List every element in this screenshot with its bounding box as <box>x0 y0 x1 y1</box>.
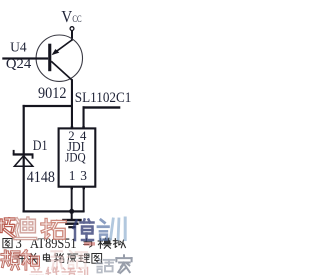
svg-text:4148: 4148 <box>27 169 55 186</box>
relay pin marks <box>71 126 85 128</box>
wire: Vcc terminal to Q24 emitter <box>71 30 73 40</box>
wire: relay pin 4 to SL1102C1 net <box>83 106 121 129</box>
watermark row 1 <box>0 218 125 240</box>
relay bottom pin marks <box>71 187 86 189</box>
svg-text:1: 1 <box>69 168 76 183</box>
power net Vcc label <box>61 7 81 26</box>
wire: left vertical (diode branch) <box>23 105 25 212</box>
svg-text:9012: 9012 <box>38 85 67 102</box>
ground symbol <box>62 211 81 228</box>
wire: bottom ground bus <box>23 210 85 212</box>
wire: horizontal to diode branch <box>23 105 72 107</box>
relay JDQ (JDI/JDQ, pins 1-4) <box>59 128 96 186</box>
junction node <box>69 209 74 214</box>
svg-text:U4: U4 <box>10 40 27 55</box>
caption line 2 <box>15 253 102 263</box>
svg-text:3: 3 <box>80 168 87 183</box>
caption line 1: fig 3 AT89S51 <box>3 236 126 252</box>
svg-text:V: V <box>61 7 72 26</box>
svg-text:D1: D1 <box>33 138 48 154</box>
pin labels 2 4 <box>68 129 87 143</box>
pin labels 1 3 <box>69 168 88 183</box>
wire: base of Q24 <box>2 57 48 59</box>
transistor Q24 (9012 PNP) <box>36 35 82 81</box>
svg-text:SL1102C1: SL1102C1 <box>75 90 132 106</box>
wire: relay pin 3 down <box>83 187 85 212</box>
svg-text:JDQ: JDQ <box>65 150 86 164</box>
wire: relay pin 1 down <box>71 187 73 212</box>
wire: collector of Q24 down to relay pin 2 <box>71 79 73 129</box>
Vcc terminal node <box>70 27 74 31</box>
watermark row 2 <box>2 242 132 273</box>
watermark row 3 (clipped at bottom) <box>30 267 88 275</box>
diode D1 (4148) <box>13 150 34 166</box>
svg-text:CC: CC <box>72 14 81 25</box>
